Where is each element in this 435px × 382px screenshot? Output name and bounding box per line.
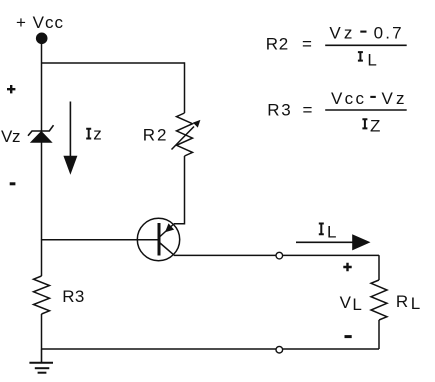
current arrow Iz line	[69, 102, 71, 159]
wire R2 top stub	[184, 62, 186, 113]
node Vcc dot	[36, 33, 48, 45]
wire R3 bottom to ground rail	[41, 314, 43, 349]
label Iz	[86, 124, 102, 143]
terminal bottom open circle	[276, 346, 283, 353]
resistor R2 wiper arrow head	[193, 120, 201, 128]
svg-text:L: L	[367, 50, 376, 69]
equation R2 denominator	[358, 50, 377, 69]
resistor R2 zigzag	[177, 113, 193, 156]
wire R2 bottom to collector	[174, 156, 185, 224]
transistor Q1 emitter diagonal	[160, 243, 174, 255]
terminal top open circle	[276, 252, 283, 259]
equation R2 fraction bar	[325, 44, 407, 46]
wire left vertical upper (rail to base junction)	[41, 63, 43, 240]
svg-text:R2: R2	[266, 34, 289, 53]
label VL	[340, 293, 362, 314]
svg-text:=: =	[303, 100, 313, 119]
label + (load plus)	[343, 263, 351, 271]
equation R2 lhs	[266, 34, 312, 53]
label - (load minus)	[345, 335, 352, 338]
svg-text:R3: R3	[267, 100, 291, 119]
svg-text:Z: Z	[370, 117, 380, 136]
current arrow Iz head	[63, 156, 77, 175]
wire base horizontal	[42, 239, 158, 241]
resistor R2 wiper arrow line	[172, 127, 195, 150]
svg-text:z: z	[93, 124, 102, 143]
svg-text:R: R	[396, 292, 408, 311]
current arrow IL head	[352, 234, 370, 250]
equation R2 numerator	[329, 24, 401, 43]
resistor RL zigzag	[371, 280, 387, 320]
wire right vertical upper	[378, 255, 380, 280]
svg-text:R3: R3	[62, 287, 84, 306]
svg-text:Vz: Vz	[1, 127, 21, 146]
ground stub	[41, 349, 43, 362]
wire right vertical lower	[378, 320, 380, 349]
svg-text:+ Vcc: + Vcc	[16, 13, 64, 32]
svg-text:R2: R2	[143, 125, 167, 144]
wire Vcc dot down to top rail	[41, 40, 43, 63]
label RL	[396, 292, 420, 313]
label Vz	[1, 127, 21, 146]
svg-text:L: L	[411, 294, 420, 313]
svg-text:L: L	[352, 295, 361, 314]
wire emitter horizontal to load	[174, 254, 379, 256]
equation R3 lhs	[267, 100, 312, 119]
svg-text:V: V	[340, 293, 352, 312]
wire left vertical to R3	[41, 240, 43, 276]
current arrow IL line	[296, 241, 355, 243]
svg-text:0.7: 0.7	[374, 24, 402, 43]
svg-text:Vcc: Vcc	[331, 89, 365, 108]
wire top horizontal rail	[42, 62, 185, 64]
wire bottom horizontal rail	[42, 348, 380, 350]
ground bars	[29, 363, 53, 373]
transistor Q1 base bar	[158, 223, 161, 256]
zener diode Vz cathode bar	[28, 125, 54, 136]
equation R3 denominator	[362, 117, 380, 136]
svg-text:L: L	[327, 222, 336, 241]
transistor Q1 arrow head	[165, 223, 174, 232]
equation R3 numerator	[331, 89, 405, 108]
resistor R3 zigzag	[34, 276, 50, 314]
label R2	[143, 125, 167, 144]
svg-text:=: =	[302, 34, 312, 53]
equation R3 fraction bar	[325, 109, 407, 111]
label IL	[319, 222, 337, 241]
label +Vcc	[16, 13, 64, 32]
transistor Q1 circle	[137, 218, 179, 260]
zener diode Vz anode triangle	[31, 132, 52, 143]
label + (zener plus)	[7, 85, 15, 93]
transistor Q1 collector diagonal	[160, 224, 174, 237]
label R3	[62, 287, 84, 306]
label - (zener minus)	[10, 182, 16, 185]
